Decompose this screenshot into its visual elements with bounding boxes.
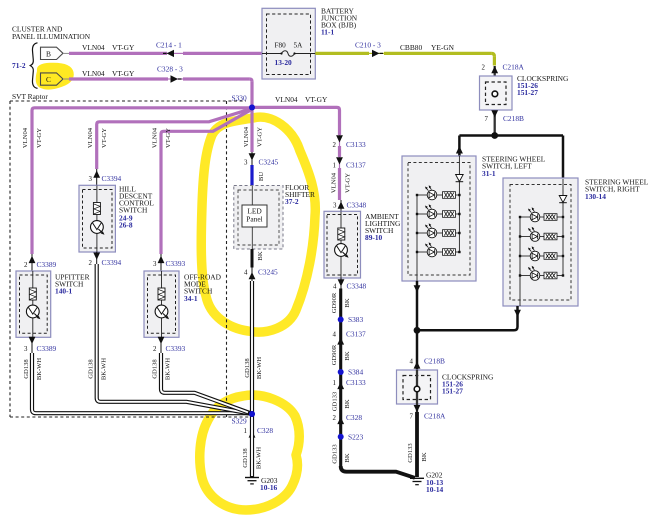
label VLN04 VT-GY (C wire) — [82, 69, 135, 78]
svg-text:BK: BK — [344, 351, 351, 360]
svg-text:C3393: C3393 — [166, 344, 186, 353]
floor shifter label — [285, 183, 315, 206]
label VLN04 VT-GY (B wire) — [82, 43, 135, 52]
resistor in upfitter switch — [29, 288, 36, 300]
svg-text:VLN04: VLN04 — [330, 172, 337, 193]
svg-text:CBB80: CBB80 — [400, 43, 422, 52]
wire inside upfitter switch — [32, 271, 34, 337]
svg-text:C218A: C218A — [503, 63, 525, 72]
svg-text:1: 1 — [244, 428, 248, 435]
svg-text:VLN04: VLN04 — [275, 95, 298, 104]
rotated labels GD90R BK — [331, 292, 351, 313]
svg-text:2: 2 — [482, 65, 486, 72]
wire CBB80 YE-GN from BJB to clockspring — [315, 53, 494, 65]
svg-text:GD138: GD138 — [87, 359, 94, 379]
ambient lighting switch box — [324, 211, 361, 278]
svg-text:BK: BK — [344, 298, 351, 307]
svg-text:VT-GY: VT-GY — [112, 69, 135, 78]
rotated labels VLN04 VT-GY hill descent — [87, 127, 108, 148]
rotated labels GD138 BK-WH hill — [87, 358, 107, 381]
inline connector arrow C210 (right) — [372, 50, 383, 57]
pin 2 C3394 below — [89, 258, 122, 267]
pin 4 C218B — [410, 357, 445, 366]
svg-text:10-16: 10-16 — [260, 483, 278, 492]
wire VLN04 VT-GY from B to BJB — [69, 52, 262, 55]
wire trunk to G202 — [341, 466, 415, 478]
svg-text:C3137: C3137 — [346, 330, 366, 339]
svg-text:GD138: GD138 — [244, 358, 251, 378]
arrow up at C3348 pin 3 — [338, 200, 345, 212]
resistor in ambient switch — [338, 228, 345, 240]
svg-text:GD133: GD133 — [407, 443, 414, 463]
SVT Raptor dashed border bottom — [10, 416, 250, 418]
svg-text:C210 - 3: C210 - 3 — [355, 41, 381, 50]
stub wire from C — [63, 78, 70, 80]
ambient lighting switch label — [365, 212, 401, 242]
rotated labels GD138 BK-WH floor column — [244, 357, 263, 380]
svg-text:4: 4 — [410, 359, 414, 366]
S330 node — [249, 105, 255, 111]
label CBB80 YE-GN — [400, 43, 455, 52]
svg-text:VLN04: VLN04 — [243, 126, 250, 147]
svg-text:BU: BU — [258, 172, 265, 181]
svg-text:C218B: C218B — [503, 114, 524, 123]
svg-text:4: 4 — [333, 284, 337, 291]
connector C pentagon — [41, 73, 64, 85]
G202 label — [426, 471, 444, 494]
steering left: LED row 1 — [416, 185, 461, 200]
svg-text:2: 2 — [153, 346, 157, 353]
svg-text:89-10: 89-10 — [365, 233, 383, 242]
svg-text:BK: BK — [344, 399, 351, 408]
steering right: LED row 4 — [519, 266, 564, 281]
inline connector arrow C328 (right) — [171, 75, 182, 82]
arrow down at C3348 pin 4 — [338, 278, 345, 289]
svg-text:BK-WH: BK-WH — [256, 447, 263, 470]
rotated labels GD138 BK-WH upfitter — [23, 358, 43, 381]
svg-text:S223: S223 — [348, 433, 364, 442]
svg-text:VT-GY: VT-GY — [101, 128, 108, 148]
SVT Raptor dashed border top — [10, 100, 246, 102]
arrow up at C3394 pin 3 — [93, 169, 100, 186]
svg-text:VT-GY: VT-GY — [112, 43, 135, 52]
svg-text:C3133: C3133 — [346, 140, 366, 149]
svg-text:10-14: 10-14 — [426, 485, 444, 494]
svg-text:151-27: 151-27 — [517, 88, 538, 97]
S383 node — [338, 317, 344, 323]
highlighter blob around connector C — [36, 63, 74, 90]
svg-text:VT-GY: VT-GY — [305, 95, 328, 104]
stub wire from B — [63, 52, 70, 54]
steering left: diode D1 — [456, 175, 464, 182]
svg-text:1: 1 — [333, 163, 337, 170]
SVT Raptor dashed border inner vertical — [226, 101, 228, 417]
svg-text:BK-WH: BK-WH — [36, 358, 43, 381]
svg-text:C3389: C3389 — [37, 344, 57, 353]
wire S330 down to floor shifter — [250, 108, 253, 153]
arrow down at C3245 pin 3 — [249, 152, 256, 165]
connector B pentagon — [41, 47, 64, 59]
svg-text:GD133: GD133 — [331, 444, 338, 464]
svg-text:S330: S330 — [232, 94, 248, 103]
svg-text:C3137: C3137 — [346, 161, 366, 170]
rotated labels GD90R BK second — [331, 344, 351, 365]
svg-text:S384: S384 — [348, 368, 364, 377]
highlighter loop around S329 and G203 ground — [200, 395, 299, 510]
steering right: LED row 2 — [519, 227, 564, 242]
rotated labels GD133 BK — [331, 391, 351, 411]
steering wheel switch right label — [585, 178, 649, 202]
svg-text:C328 - 3: C328 - 3 — [157, 65, 183, 74]
wire BU blue segment — [250, 165, 253, 186]
pin 2 C328 — [333, 413, 363, 422]
arrow down C3137 — [336, 157, 343, 168]
svg-text:37-2: 37-2 — [285, 197, 299, 206]
bulb in off-road switch — [155, 305, 169, 319]
arrow up at C3389 pin 2 — [29, 254, 36, 271]
highlighter loop around floor shifter — [201, 117, 315, 332]
pin 3 C3245 — [244, 158, 278, 167]
svg-text:VT-GY: VT-GY — [165, 128, 172, 148]
wire S330 to upfitter column — [32, 108, 252, 254]
wire GD138 BK-WH upfitter return — [32, 353, 252, 413]
svg-text:GD90R: GD90R — [331, 292, 338, 313]
svg-text:2: 2 — [24, 262, 28, 269]
svg-text:PANEL ILLUMINATION: PANEL ILLUMINATION — [12, 32, 91, 41]
pin 3 C3394 — [89, 174, 122, 183]
wire BK below floor shifter — [251, 249, 254, 268]
arrow down at C218A pin 7 — [414, 405, 421, 412]
svg-text:B: B — [46, 49, 51, 58]
wire GD90R BK down from ambient switch — [339, 289, 342, 469]
svg-text:C3394: C3394 — [102, 258, 122, 267]
svg-text:C218A: C218A — [424, 412, 446, 421]
svg-text:SVT Raptor: SVT Raptor — [12, 92, 48, 101]
svg-text:VT-GY: VT-GY — [256, 127, 263, 147]
svg-text:7: 7 — [485, 116, 489, 123]
wire GD138 BK-WH hill descent return — [97, 264, 251, 414]
arrow down at steering right exit — [514, 310, 521, 317]
arrow up at C218B pin 4 — [414, 361, 421, 368]
upfitter switch box — [16, 271, 51, 337]
svg-text:GD138: GD138 — [151, 359, 158, 379]
svg-text:C3393: C3393 — [166, 259, 186, 268]
svg-text:11-1: 11-1 — [321, 28, 334, 37]
svg-text:C214 - 1: C214 - 1 — [156, 41, 182, 50]
svg-text:GD133: GD133 — [331, 391, 338, 411]
svg-text:26-8: 26-8 — [119, 221, 133, 230]
pin 2 C3389 — [24, 260, 56, 269]
arrow down at steering left exit — [414, 285, 421, 292]
wire GD138 BK-WH off-road return — [161, 353, 251, 413]
svg-text:BK-WH: BK-WH — [165, 358, 172, 381]
svg-text:3: 3 — [24, 346, 28, 353]
svg-text:C328: C328 — [257, 426, 273, 435]
label VLN04 VT-GY right of S330 — [275, 95, 328, 104]
wire inside hill descent switch — [96, 186, 98, 253]
bulb in upfitter switch — [26, 305, 40, 319]
off-road mode switch box — [144, 271, 179, 337]
svg-text:1: 1 — [333, 380, 337, 387]
arrow down at C3393 pin 2 — [158, 337, 165, 353]
svg-text:13-20: 13-20 — [275, 58, 293, 67]
brace for connector group — [30, 43, 37, 89]
svg-text:BK: BK — [421, 452, 428, 461]
battery junction box label — [321, 7, 358, 37]
fuse F80 5A — [262, 42, 315, 67]
svg-text:VLN04: VLN04 — [82, 43, 105, 52]
inline connector arrow C214 (left) — [163, 50, 174, 57]
svg-text:VLN04: VLN04 — [22, 127, 29, 148]
pin 4 C3245 — [244, 268, 278, 277]
svg-text:C3245: C3245 — [259, 158, 279, 167]
pin 3 C3389 below — [24, 344, 56, 353]
arrow up into left switch — [456, 146, 463, 154]
rotated labels GD138 BK-WH off-road — [151, 358, 171, 381]
arrow up at C3393 pin 3 — [158, 254, 165, 271]
rotated labels GD133 BK ground leg — [407, 443, 428, 463]
svg-text:F80: F80 — [275, 42, 287, 50]
pin 2 C3133 — [333, 140, 366, 149]
arrow down at C3394 pin 2 — [93, 252, 100, 265]
S223 node — [338, 434, 344, 440]
svg-text:3: 3 — [333, 203, 337, 210]
svg-text:C218B: C218B — [424, 357, 445, 366]
svg-text:5A: 5A — [294, 42, 304, 50]
svg-text:Panel: Panel — [246, 215, 262, 224]
wire GD138 BK-WH to G203 — [250, 414, 254, 477]
clockspring 2 label — [442, 373, 494, 396]
rotated labels VLN04 VT-GY off-road — [151, 127, 172, 148]
svg-text:2: 2 — [333, 415, 337, 422]
pin 2 C218A — [482, 63, 525, 72]
svg-text:BK: BK — [257, 251, 264, 260]
S384 node — [338, 369, 344, 375]
clockspring 2 box — [397, 370, 438, 404]
clockspring 2 circle — [414, 386, 420, 392]
svg-text:2: 2 — [333, 142, 337, 149]
steering left: exit wire down — [416, 281, 419, 330]
bulb in hill descent switch — [91, 221, 105, 235]
hill descent control switch box — [79, 185, 115, 252]
steering right: diode D2 — [559, 196, 567, 203]
steering left: left bus wire — [416, 195, 418, 281]
svg-text:VLN04: VLN04 — [151, 127, 158, 148]
title text CLUSTER AND PANEL ILLUMINATION — [12, 25, 91, 41]
pin 3 C3393 — [153, 259, 185, 268]
svg-text:2: 2 — [89, 260, 93, 267]
svg-text:BK-WH: BK-WH — [256, 357, 263, 380]
svg-text:3: 3 — [153, 261, 157, 268]
wire inside off-road switch — [161, 271, 163, 337]
node S330 (top copy) — [249, 105, 255, 111]
battery junction box outer — [262, 8, 315, 79]
S329 node — [249, 411, 255, 417]
wire S330 to off-road column — [161, 110, 251, 254]
wire VLN04 VT-GY down to ambient switch — [338, 168, 341, 200]
resistor in off-road switch — [158, 288, 165, 300]
pin 7 C218A — [410, 412, 446, 421]
svg-text:34-1: 34-1 — [184, 294, 198, 303]
svg-text:3: 3 — [244, 160, 248, 167]
steering right: exit wire down and left to junction — [417, 306, 518, 330]
svg-text:C3348: C3348 — [347, 201, 367, 210]
svg-text:4: 4 — [244, 270, 248, 277]
svg-text:C3394: C3394 — [102, 174, 122, 183]
svg-text:VLN04: VLN04 — [82, 69, 105, 78]
svg-text:C: C — [46, 75, 51, 84]
steering wheel switch right box — [503, 178, 578, 306]
arrow up at C328 pin 1 — [249, 430, 256, 437]
wire S330 to ambient column — [252, 107, 340, 135]
wire to steering wheel switch right — [562, 136, 565, 180]
resistor in hill descent switch — [93, 203, 100, 215]
pin 7 C218B — [485, 114, 524, 123]
svg-text:GD138: GD138 — [242, 448, 249, 468]
pin 4 C3137 — [333, 330, 366, 339]
svg-text:S329: S329 — [232, 417, 248, 426]
rotated labels GD138 BK-WH ground leg — [242, 447, 263, 470]
wire through clockspring 2 — [416, 370, 418, 412]
ground G202 — [410, 478, 424, 484]
junction node below steering left — [414, 327, 421, 334]
arrow up at C3137 pin 4 — [337, 337, 344, 344]
upfitter switch label — [55, 273, 90, 296]
G203 label — [260, 476, 278, 492]
wire S330 to hill descent column — [97, 109, 251, 169]
wire VLN04 VT-GY from C to S330 — [69, 79, 252, 106]
LED panel box — [242, 205, 267, 227]
steering wheel switch left box — [402, 156, 476, 281]
steering wheel switch left label — [482, 155, 546, 179]
svg-text:3: 3 — [89, 176, 93, 183]
wire GD133 BK to G202 — [415, 412, 419, 477]
wire GD138 BK-WH from floor shifter to S329 — [250, 281, 254, 414]
wire bus to steering switches — [459, 134, 563, 137]
arrow up at C218A — [491, 66, 498, 73]
svg-text:S383: S383 — [348, 315, 364, 324]
svg-text:71-2: 71-2 — [12, 61, 26, 70]
wire VLN04 VT-GY segment — [338, 146, 341, 157]
wire to steering wheel switch left — [458, 136, 461, 158]
svg-text:130-14: 130-14 — [585, 192, 606, 201]
arrow up at C3133 pin 1 — [337, 382, 344, 389]
svg-text:GD138: GD138 — [23, 359, 30, 379]
steering left: right bus wire — [458, 156, 460, 252]
arrow up at C328 pin 2 — [337, 417, 344, 424]
steering right: LED row 1 — [519, 207, 564, 222]
pin 4 C3348 below — [333, 282, 366, 291]
clockspring box — [480, 76, 513, 110]
rotated labels VLN04 VT-GY upfitter — [22, 127, 43, 148]
node S329 (top copy) — [249, 411, 255, 417]
svg-text:C3245: C3245 — [258, 268, 278, 277]
svg-text:BK-WH: BK-WH — [101, 358, 108, 381]
off-road mode switch label — [184, 273, 222, 304]
steering left: LED row 4 — [416, 242, 461, 257]
pin 3 C3348 — [333, 201, 366, 210]
wire junction to clockspring 2 — [416, 330, 419, 370]
floor shifter box — [234, 186, 283, 250]
arrow down at C218B — [491, 110, 498, 117]
svg-text:C3133: C3133 — [346, 378, 366, 387]
pin 1 C3133 — [333, 378, 366, 387]
arrow down at C3389 pin 3 — [29, 337, 36, 353]
svg-text:4: 4 — [333, 332, 337, 339]
clockspring label — [517, 74, 569, 97]
svg-text:C328: C328 — [346, 413, 362, 422]
arrow up at C3245 pin 4 — [249, 268, 256, 282]
svg-text:VT-GY: VT-GY — [344, 173, 351, 193]
steering left: LED row 2 — [416, 204, 461, 219]
svg-text:GD90R: GD90R — [331, 344, 338, 365]
svg-text:VLN04: VLN04 — [87, 127, 94, 148]
svg-text:C3348: C3348 — [347, 282, 367, 291]
steering right: left bus wire — [519, 217, 521, 306]
rotated labels VLN04 VT-GY ambient — [330, 172, 351, 193]
SVT Raptor dashed border left — [9, 101, 11, 417]
ambient column: arrow down C3133 — [336, 135, 343, 146]
svg-text:7: 7 — [410, 414, 414, 421]
svg-text:YE-GN: YE-GN — [431, 43, 455, 52]
wire into clockspring — [494, 66, 496, 136]
svg-text:BK: BK — [344, 453, 351, 462]
bulb in ambient switch — [335, 244, 349, 258]
junction node below clockspring — [491, 132, 498, 139]
svg-text:140-1: 140-1 — [55, 287, 73, 296]
rotated labels GD133 BK second — [331, 444, 351, 464]
svg-text:VT-GY: VT-GY — [36, 128, 43, 148]
pin 1 C3137 — [333, 161, 366, 170]
svg-text:151-27: 151-27 — [442, 386, 463, 395]
wire inside floor shifter — [251, 186, 253, 205]
wire below LED panel — [251, 227, 253, 249]
wire inside ambient switch — [340, 212, 342, 279]
steering right: LED row 3 — [519, 246, 564, 261]
rotated labels VLN04 VT-GY floor branch — [243, 126, 264, 147]
steering left: LED row 3 — [416, 223, 461, 238]
pin 2 C3393 below — [153, 344, 185, 353]
svg-text:31-1: 31-1 — [482, 169, 496, 178]
steering right: entry bus — [562, 179, 564, 276]
pin 1 C328 — [244, 426, 274, 435]
ground G203 — [245, 478, 259, 484]
hill descent control switch label — [119, 185, 154, 230]
svg-text:C3389: C3389 — [37, 260, 57, 269]
